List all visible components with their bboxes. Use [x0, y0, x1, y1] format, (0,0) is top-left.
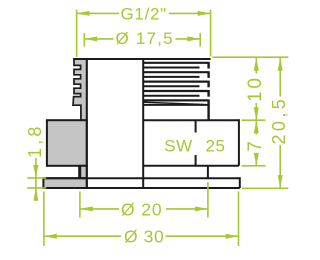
svg-text:1,8: 1,8: [25, 123, 45, 158]
svg-text:Ø 17,5: Ø 17,5: [116, 29, 174, 48]
svg-text:7: 7: [245, 138, 266, 152]
svg-text:SW: SW: [164, 136, 192, 155]
svg-text:G1/2": G1/2": [121, 5, 167, 24]
svg-text:Ø 20: Ø 20: [121, 200, 163, 220]
svg-text:10: 10: [245, 75, 266, 102]
svg-text:20,5: 20,5: [269, 96, 289, 145]
svg-text:Ø 30: Ø 30: [124, 227, 164, 247]
svg-text:25: 25: [206, 136, 226, 155]
